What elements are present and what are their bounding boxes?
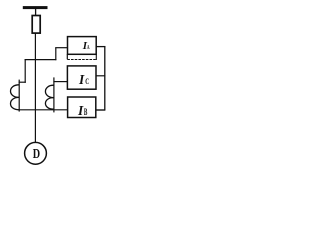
CT TA-A winding vertical [18,80,20,112]
CT TA-A lobe 1 [11,85,20,98]
wire: IB right to bus [96,109,106,111]
wire: busbar to fuse [35,9,37,16]
ammeter IC box [67,66,96,89]
CT TA-A lobe 2 [11,97,20,109]
wire: horizontal below IA [67,59,96,61]
wire: main stem fuse to motor [34,33,36,142]
CT TA-C lobe 1 [45,85,53,97]
wire: IA right to bus [96,46,105,48]
wire: into IA left [55,47,67,49]
CT TA-C lobe 2 [45,98,53,110]
svg-text:D: D [33,145,41,161]
wire: jog down to CT-A [24,59,26,83]
svg-text:B: B [84,107,88,118]
wire: CT common bottom line [19,109,68,111]
CT TA-C winding vertical [53,77,55,112]
wire: CT-C top to IC left [53,81,67,83]
busbar [23,6,48,9]
wire: CT-A secondary top horizontal to jog [25,59,57,61]
svg-text:I: I [77,103,84,118]
wire: IC right to bus [96,75,105,77]
ammeter IA box [68,37,97,55]
wire: stub below IA right corner [95,54,97,60]
ammeter IB box [68,97,96,118]
wire: jog up toward ammeter IA [55,48,57,61]
motor D circle [25,142,47,164]
wire: right bus vertical [104,46,106,110]
wire: short horizontal into CT-A top [19,81,26,83]
svg-text:I: I [78,72,85,87]
wire: stub below IA [66,54,68,59]
svg-text:C: C [85,76,89,87]
fuse FU [32,16,40,34]
svg-text:A: A [87,44,90,51]
